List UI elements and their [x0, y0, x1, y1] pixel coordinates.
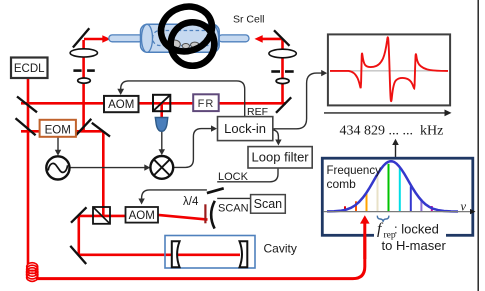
comb frequency axis [324, 211, 472, 213]
svg-text:comb: comb [327, 177, 357, 191]
lens left column [70, 49, 97, 57]
svg-text:AOM: AOM [108, 99, 134, 111]
Scan box [251, 195, 286, 214]
fiber coil [27, 263, 38, 282]
oscillator [46, 156, 69, 179]
small lens left column [78, 78, 91, 83]
wire: red beam into cavity [80, 254, 241, 257]
switch blade [207, 188, 224, 193]
photodetector [155, 118, 168, 132]
svg-text:Loop filter: Loop filter [252, 150, 310, 165]
aperture right column [271, 70, 280, 73]
spectrum baseline [330, 70, 448, 72]
EOM box [40, 120, 76, 137]
comb envelope [327, 161, 458, 211]
beamsplitter cube1 [153, 95, 170, 111]
svg-text:to H-maser: to H-maser [382, 238, 447, 253]
Sr cell inner dashed tube [153, 31, 216, 46]
cavity mirror right [240, 241, 248, 267]
wire: red beam vertical left column to cell [82, 40, 85, 131]
wire: detector to mixer [161, 131, 163, 151]
Sr cell left cap [142, 24, 153, 52]
Loop filter box [248, 147, 312, 168]
wire: loop filter to LOCK terminal [217, 168, 278, 182]
Cavity box [165, 236, 255, 269]
mirror left of EOM (M2) [16, 118, 36, 135]
curved scan mirror [211, 201, 215, 229]
mirror right of EOM up (M3) [76, 119, 91, 135]
wire: red beam horizontal main y=103 [21, 102, 286, 105]
lens right column [269, 49, 296, 58]
AOM2 box [126, 207, 159, 223]
wire: red beam vertical down to cavity mirror [78, 217, 81, 256]
wire: mixer to lockin [173, 129, 213, 168]
wire: EOM to oscillator [57, 137, 59, 152]
wire: lockin to loop filter [273, 130, 279, 141]
red arrow into comb [363, 223, 366, 260]
svg-text:λ/4: λ/4 [183, 196, 199, 208]
wire: switch to AOM2 [142, 190, 207, 200]
mixer [150, 156, 173, 179]
svg-text:ECDL: ECDL [14, 63, 45, 75]
mirror below ECDL (M1) [17, 97, 37, 113]
svg-text:Sr Cell: Sr Cell [233, 14, 265, 26]
small lens right column [276, 78, 289, 83]
svg-text:Frequency: Frequency [327, 165, 382, 177]
spectrum red curve [330, 37, 448, 101]
wire: red beam AOM2 to curved mirror [158, 215, 208, 220]
wire: SCAN terminal line [217, 197, 250, 199]
arrow up to frequency value [395, 143, 397, 158]
wire: oscillator to mixer [70, 167, 147, 169]
svg-text:LOCK: LOCK [218, 171, 249, 183]
Sr cell body [141, 24, 220, 52]
beamsplitter cube2 [93, 207, 110, 224]
Lock-in box [218, 117, 273, 141]
svg-text:FR: FR [198, 98, 215, 110]
svg-text:ν: ν [461, 200, 467, 214]
svg-text:Lock-in: Lock-in [224, 121, 266, 136]
wire: red beam vertical right column to cell [281, 40, 284, 103]
svg-text:: locked: : locked [394, 222, 439, 237]
spectrum display box [328, 34, 450, 105]
coil ring B [171, 22, 215, 66]
Sr cell left tube [109, 35, 143, 42]
ECDL box [11, 58, 48, 79]
aperture left column [73, 69, 81, 72]
mirror right of EOM down (M4) [92, 123, 110, 137]
mirror bottom-left (M6) [70, 246, 86, 264]
wire: red beam ECDL down to fiber coil [27, 76, 30, 264]
Sr cell right tube [219, 35, 250, 42]
wire: red beam arrow into cell right [262, 38, 282, 41]
wire: fiber to frequency comb [36, 223, 365, 279]
brace under comb teeth [377, 216, 389, 222]
svg-text:434 829 ... ... kHz: 434 829 ... ... kHz [340, 124, 444, 139]
wire: red beam arrow into cell left [84, 38, 103, 41]
mirror top-left (to Sr cell) [73, 28, 89, 47]
svg-text:SCAN: SCAN [218, 203, 249, 215]
wire: red vertical down from cube1 to detector [160, 103, 163, 118]
right edge line [477, 0, 479, 291]
frequency axis arrow [324, 112, 446, 114]
svg-text:EOM: EOM [45, 125, 71, 137]
wire: red beam vertical into cube2 [102, 131, 105, 216]
waveplate [204, 204, 206, 223]
mirror top-right (to Sr cell) [274, 30, 290, 46]
FR box [193, 94, 219, 111]
wire: red beam horizontal EOM y=131 [21, 130, 103, 133]
svg-text:AOM: AOM [129, 210, 155, 222]
svg-text:REF: REF [247, 106, 268, 118]
coil ring A [155, 0, 218, 58]
white backing for f_rep text over border [374, 217, 446, 254]
svg-text:Cavity: Cavity [264, 241, 297, 255]
cavity mirror left [172, 241, 180, 267]
mirror right column bottom [276, 97, 291, 113]
AOM1 box [104, 96, 139, 112]
frequency comb box [322, 158, 473, 235]
comb teeth [345, 164, 432, 211]
wire: REF feedback loop lockin to AOM1 [121, 81, 245, 117]
svg-text:Scan: Scan [254, 197, 283, 211]
wire: lockin to spectrum display [273, 73, 323, 129]
wire: red beam horizontal into AOM2 [79, 215, 127, 218]
Sr cell right cap arc [212, 25, 218, 52]
Sr metal chunks [169, 40, 199, 49]
mirror left of cube2 (M5) [71, 207, 87, 222]
